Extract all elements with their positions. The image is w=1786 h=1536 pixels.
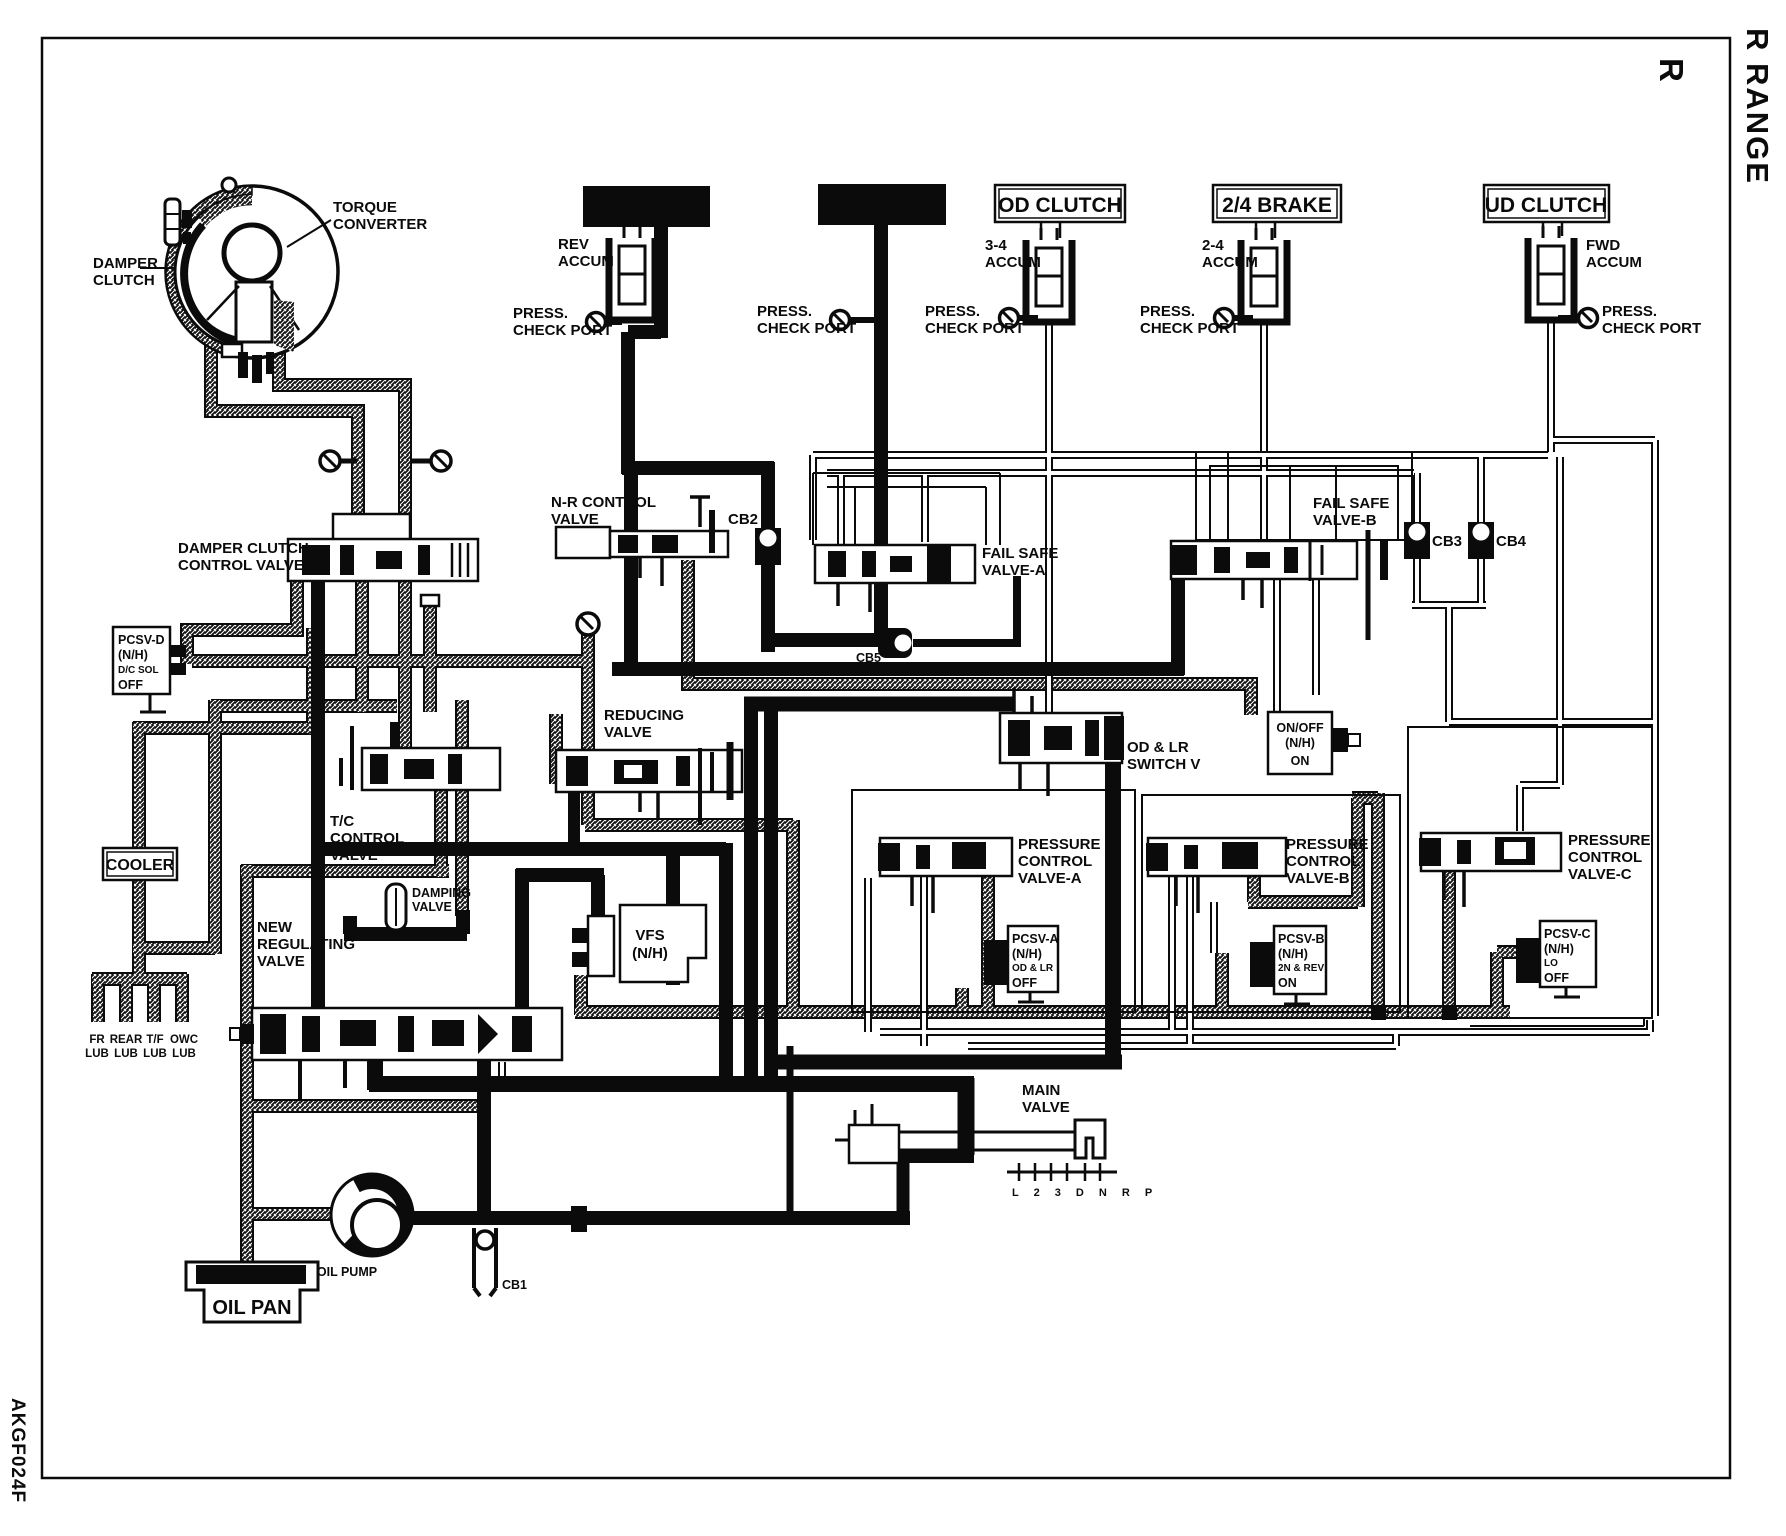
svg-text:PRESS.: PRESS. <box>757 303 812 320</box>
wire: top jumper to CB2 <box>622 462 774 652</box>
svg-text:T/C: T/C <box>330 813 354 830</box>
damping valve <box>386 884 406 930</box>
wire: reducing valve to VFS column <box>585 820 793 1012</box>
converter feed rect 1 <box>583 186 710 227</box>
svg-text:VFS: VFS <box>635 927 664 944</box>
svg-text:(N/H): (N/H) <box>1544 942 1574 956</box>
wire: capped stub <box>429 604 431 712</box>
svg-text:FR: FR <box>89 1034 105 1046</box>
PCSV-B solenoid <box>1250 926 1326 1004</box>
hatched pipe cores <box>92 340 1520 1263</box>
wire: valve-A drain <box>987 866 989 1012</box>
wire: converter drain B <box>279 340 405 545</box>
hatched pipe borders <box>92 340 1520 1263</box>
svg-text:(N/H): (N/H) <box>632 945 668 962</box>
wire: CB2 down to CB5 line <box>768 633 890 647</box>
port stub (2-4) <box>1233 315 1253 321</box>
wire: pump pressure column <box>477 1060 491 1222</box>
svg-text:CB3: CB3 <box>1432 533 1462 550</box>
wire: cooler riser <box>133 628 320 734</box>
wire: T/C valve drain <box>440 790 442 877</box>
svg-text:CONTROL: CONTROL <box>1286 853 1360 870</box>
wire: 3-4 accum column <box>1048 320 1050 713</box>
svg-text:CB2: CB2 <box>728 511 758 528</box>
fail safe valve A <box>815 545 975 612</box>
wire: right mid column <box>1520 457 1560 831</box>
svg-text:OWC: OWC <box>170 1034 198 1046</box>
check ball CB1 <box>474 1228 496 1296</box>
svg-text:DAMPING: DAMPING <box>412 886 471 900</box>
2-4 accumulator <box>1241 228 1287 322</box>
converter feed rect 2 <box>818 184 946 225</box>
svg-text:REAR: REAR <box>110 1034 143 1046</box>
svg-text:VALVE: VALVE <box>1022 1099 1070 1116</box>
svg-text:ACCUM: ACCUM <box>558 253 614 270</box>
wire: drop to pump line <box>787 1046 794 1214</box>
svg-text:CONTROL: CONTROL <box>1018 853 1092 870</box>
check ball CB4 <box>1468 522 1494 559</box>
pressure control valve C <box>1419 833 1561 907</box>
wire: junction band <box>765 1055 1122 1070</box>
wire: VFS solenoid drain <box>580 975 582 1015</box>
oil pan <box>186 1262 318 1322</box>
PCSV-D solenoid <box>113 627 186 712</box>
svg-text:REV: REV <box>558 236 589 253</box>
wire: top long hollow pair <box>813 454 1548 456</box>
T/C control valve <box>341 726 500 790</box>
svg-text:D/C SOL: D/C SOL <box>118 665 159 676</box>
OD CLUTCH box <box>995 185 1125 222</box>
svg-text:VALVE: VALVE <box>604 724 652 741</box>
svg-text:LUB: LUB <box>85 1048 109 1060</box>
wire: main valve band <box>897 1149 974 1163</box>
3-4 accumulator <box>1026 228 1072 322</box>
VFS solenoid <box>572 905 706 982</box>
press check port (second feed) <box>831 311 850 330</box>
wire: regulating valve outlet down <box>369 1058 974 1090</box>
press check port (FWD) <box>1579 309 1598 328</box>
svg-text:CLUTCH: CLUTCH <box>93 272 155 289</box>
svg-text:R: R <box>1653 58 1690 82</box>
wire: branch to regulating <box>666 855 680 985</box>
wire: mid horizontal <box>311 843 726 1090</box>
svg-text:CHECK PORT: CHECK PORT <box>1140 320 1239 337</box>
box: group C <box>1408 727 1652 1018</box>
wire: lub manifold <box>92 948 187 979</box>
svg-text:(N/H): (N/H) <box>1012 947 1042 961</box>
svg-text:(N/H): (N/H) <box>118 648 148 662</box>
svg-text:VALVE: VALVE <box>330 847 378 864</box>
converter ball <box>224 225 280 281</box>
wire: PCSV-B drain <box>1221 953 1223 1012</box>
box: group B <box>1142 795 1400 1012</box>
pump line junction <box>571 1206 587 1232</box>
svg-text:TORQUE: TORQUE <box>333 199 397 216</box>
svg-text:N-R CONTROL: N-R CONTROL <box>551 494 656 511</box>
svg-text:AKGF024F: AKGF024F <box>7 1398 28 1503</box>
box: fail safe B manifold <box>1196 452 1412 540</box>
svg-text:LO: LO <box>1544 958 1558 969</box>
PCSV-C solenoid <box>1516 921 1596 997</box>
svg-text:OIL PAN: OIL PAN <box>212 1297 291 1319</box>
stem handle B <box>412 451 451 471</box>
port stub (FWD) <box>1558 315 1579 321</box>
svg-text:CHECK PORT: CHECK PORT <box>513 322 612 339</box>
svg-text:ON: ON <box>1291 754 1310 768</box>
joint on hatched line <box>1371 1005 1386 1020</box>
wire: cooler left leg <box>133 700 215 954</box>
svg-text:FAIL SAFE: FAIL SAFE <box>1313 495 1389 512</box>
wire: reducing valve left stem <box>568 781 580 849</box>
svg-text:PRESSURE: PRESSURE <box>1018 836 1101 853</box>
hollow pipe cores <box>502 316 1657 1084</box>
press check port (REV) <box>587 313 606 332</box>
converter hatched wedge <box>274 300 294 352</box>
wire: lub stub REAR <box>125 974 127 1022</box>
port stub (REV) <box>605 319 622 325</box>
wire: pump outlet line <box>411 1211 910 1225</box>
svg-text:CB4: CB4 <box>1496 533 1527 550</box>
svg-text:2/4 BRAKE: 2/4 BRAKE <box>1222 194 1332 217</box>
svg-text:PCSV-A: PCSV-A <box>1012 932 1059 946</box>
damper clutch control valve <box>288 514 478 581</box>
svg-text:PRESS.: PRESS. <box>925 303 980 320</box>
converter left bracket <box>165 199 180 245</box>
wire: N-R valve down and right to ON/OFF <box>688 560 1251 715</box>
wire: pump to main valve riser <box>897 1155 910 1224</box>
check ball CB2 <box>755 528 781 565</box>
converter top tab <box>222 178 236 192</box>
wire: long bottom hatched line <box>575 1011 1510 1013</box>
svg-text:OFF: OFF <box>118 678 143 692</box>
svg-text:VALVE-B: VALVE-B <box>1313 512 1377 529</box>
wire: valve-C drain <box>1448 868 1450 1012</box>
wire: mid hatched rail <box>211 705 397 707</box>
svg-text:COOLER: COOLER <box>106 857 175 874</box>
svg-text:CHECK PORT: CHECK PORT <box>1602 320 1701 337</box>
svg-text:(N/H): (N/H) <box>1278 947 1308 961</box>
svg-text:OD CLUTCH: OD CLUTCH <box>998 194 1122 217</box>
wire: long vertical through regulating area <box>461 700 463 916</box>
reducing valve <box>556 742 742 825</box>
press check port (3-4) <box>1000 309 1019 328</box>
pressure control valve A <box>878 838 1012 913</box>
wire: fail safe A risers <box>813 455 925 545</box>
wire: OD-LR switch column <box>1105 760 1121 1067</box>
wire: VFS tee <box>516 869 604 1008</box>
svg-text:CONVERTER: CONVERTER <box>333 216 427 233</box>
svg-text:SWITCH V: SWITCH V <box>1127 756 1200 773</box>
svg-text:OD & LR: OD & LR <box>1127 739 1189 756</box>
svg-text:R RANGE: R RANGE <box>1740 28 1775 185</box>
wire: second converter rect down <box>874 224 888 646</box>
check ball CB5 <box>878 628 912 658</box>
stem handle A <box>320 451 357 471</box>
wire: 2-4 accum column <box>1263 320 1265 541</box>
svg-text:CONTROL: CONTROL <box>330 830 404 847</box>
wire: regulating valve drop <box>501 1062 503 1084</box>
box: group C inner bottom line <box>1470 1018 1644 1026</box>
ON/OFF solenoid <box>1268 712 1360 774</box>
svg-text:VALVE: VALVE <box>551 511 599 528</box>
N-R control valve <box>556 497 728 586</box>
wire: PCSV-C elbow <box>1497 952 1520 1012</box>
wire: damper valve drain right <box>404 581 406 748</box>
wire: main valve feed block <box>958 1078 975 1155</box>
fail safe valve B <box>1171 530 1384 640</box>
PCSV-A solenoid <box>984 926 1059 1002</box>
svg-text:(N/H): (N/H) <box>1285 736 1315 750</box>
wire: N-R column <box>624 470 638 669</box>
wire: press port stub rev <box>849 317 874 323</box>
svg-text:PRESSURE: PRESSURE <box>1286 836 1369 853</box>
svg-text:VALVE-A: VALVE-A <box>982 562 1046 579</box>
svg-text:ACCUM: ACCUM <box>1586 254 1642 271</box>
svg-text:CHECK PORT: CHECK PORT <box>925 320 1024 337</box>
cooler <box>103 848 177 880</box>
wire: valve A drops <box>868 876 924 1046</box>
REV accumulator <box>609 226 655 320</box>
svg-text:PCSV-B: PCSV-B <box>1278 932 1325 946</box>
svg-text:FAIL SAFE: FAIL SAFE <box>982 545 1058 562</box>
svg-text:VALVE-A: VALVE-A <box>1018 870 1082 887</box>
oil pump <box>331 1174 413 1256</box>
svg-text:PRESS.: PRESS. <box>513 305 568 322</box>
svg-text:VALVE: VALVE <box>257 953 305 970</box>
press check port (2-4) <box>1215 309 1234 328</box>
wire: lub stub T/F <box>153 974 155 1022</box>
svg-text:L 2 3 D N R P: L 2 3 D N R P <box>1012 1187 1158 1199</box>
wire: PCSV-A drain <box>961 988 963 1012</box>
port stub (3-4) <box>1018 315 1038 321</box>
wire: bottom hollow line 2 <box>968 1034 1396 1046</box>
svg-text:OD & LR: OD & LR <box>1012 963 1054 974</box>
box: fail safe A manifold <box>813 473 1000 545</box>
wire: gauge line down to reducing valve <box>587 634 589 825</box>
converter bottom ports <box>222 344 242 357</box>
svg-text:T/F: T/F <box>146 1034 163 1046</box>
svg-text:LUB: LUB <box>143 1048 167 1060</box>
svg-text:ACCUM: ACCUM <box>985 254 1041 271</box>
wire: T/C pin <box>390 722 400 748</box>
svg-text:UD CLUTCH: UD CLUTCH <box>1485 194 1607 217</box>
wire: FWD accum column <box>1550 316 1552 452</box>
svg-text:LUB: LUB <box>172 1048 196 1060</box>
wire: valve-B loop <box>1248 793 1378 1012</box>
wire: damper valve column <box>311 576 325 1016</box>
svg-text:2N & REV: 2N & REV <box>1278 963 1324 974</box>
wire: lub stub FR <box>97 974 99 1022</box>
svg-text:LUB: LUB <box>114 1048 138 1060</box>
svg-text:OFF: OFF <box>1012 976 1037 990</box>
main valve <box>835 1104 1117 1181</box>
svg-text:OIL PUMP: OIL PUMP <box>317 1265 377 1279</box>
wire: valve B drops <box>1172 876 1214 1046</box>
svg-text:ACCUM: ACCUM <box>1202 254 1258 271</box>
wire: oil pan suction riser <box>241 865 449 1263</box>
FWD accumulator <box>1528 226 1574 320</box>
wire: converter drain A <box>211 344 358 545</box>
wire: lub stub OWC <box>181 974 183 1022</box>
wire: fail safe B block down <box>1171 571 1185 675</box>
wire: damper valve to PCSV-D <box>187 576 297 664</box>
svg-text:PRESS.: PRESS. <box>1140 303 1195 320</box>
svg-text:OFF: OFF <box>1544 971 1569 985</box>
wire: CB3 riser <box>1416 473 1418 524</box>
UD CLUTCH box <box>1484 185 1609 222</box>
svg-text:FWD: FWD <box>1586 237 1620 254</box>
wire: OD-LR feed pair <box>744 697 1013 712</box>
svg-text:NEW: NEW <box>257 919 293 936</box>
OD & LR switch valve <box>1000 688 1124 796</box>
wire: reducing valve frame <box>555 714 557 784</box>
wire: CB4 riser <box>1480 455 1482 524</box>
svg-text:REDUCING: REDUCING <box>604 707 684 724</box>
svg-text:DAMPER CLUTCH: DAMPER CLUTCH <box>178 540 309 557</box>
svg-text:DAMPER: DAMPER <box>93 255 158 272</box>
svg-text:2-4: 2-4 <box>1202 237 1224 254</box>
converter hub <box>236 282 272 342</box>
wire: CB5 line to fail safe A <box>913 576 1017 647</box>
svg-text:PRESS.: PRESS. <box>1602 303 1657 320</box>
svg-text:3-4: 3-4 <box>985 237 1007 254</box>
wire: bottom hollow line 1 <box>880 1020 1650 1032</box>
svg-text:PRESSURE: PRESSURE <box>1568 832 1651 849</box>
wire: long line left of fail safe B <box>612 662 1184 676</box>
svg-text:CONTROL VALVE: CONTROL VALVE <box>178 557 304 574</box>
lub labels <box>85 1034 198 1060</box>
svg-text:REGULATING: REGULATING <box>257 936 355 953</box>
torque converter <box>165 178 338 383</box>
wire: damper valve drain left <box>361 581 363 712</box>
wire: pump area hatched line <box>247 1105 478 1107</box>
svg-text:VALVE-C: VALVE-C <box>1568 866 1632 883</box>
svg-text:CHECK PORT: CHECK PORT <box>757 320 856 337</box>
wire: right loop outer <box>1551 440 1655 1016</box>
capped stub head <box>421 595 439 606</box>
2/4 BRAKE box <box>1213 185 1341 222</box>
joint on hatched line 2 <box>1442 1005 1457 1020</box>
svg-text:CB5: CB5 <box>856 651 881 665</box>
gauge circle <box>577 613 599 635</box>
wire: PCSV-D long line right <box>192 660 588 662</box>
wire: pump suction <box>246 1213 336 1215</box>
svg-text:MAIN: MAIN <box>1022 1082 1060 1099</box>
pressure control valve B <box>1146 838 1286 913</box>
check ball CB3 <box>1404 522 1430 559</box>
wire: regulating top feed <box>344 910 467 934</box>
svg-text:ON/OFF: ON/OFF <box>1276 721 1324 735</box>
new regulating valve <box>230 1008 562 1100</box>
hollow pipe borders <box>502 316 1657 1084</box>
wire: fail safe B drops <box>1277 579 1316 712</box>
svg-text:PCSV-C: PCSV-C <box>1544 927 1591 941</box>
box: group A <box>852 790 1135 1012</box>
svg-text:VALVE: VALVE <box>412 900 452 914</box>
box drops <box>1041 222 1562 238</box>
svg-text:VALVE-B: VALVE-B <box>1286 870 1350 887</box>
wire: OD-LR vertical pair <box>751 704 771 1084</box>
svg-text:CONTROL: CONTROL <box>1568 849 1642 866</box>
wire: rev accum feed from converter feed rect <box>628 224 661 474</box>
svg-text:ON: ON <box>1278 976 1297 990</box>
wire: CB3 CB4 merge <box>1412 553 1657 722</box>
svg-text:CB1: CB1 <box>502 1278 527 1292</box>
svg-text:PCSV-D: PCSV-D <box>118 633 165 647</box>
